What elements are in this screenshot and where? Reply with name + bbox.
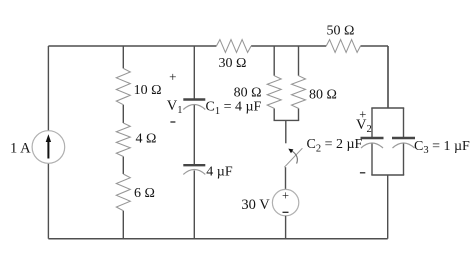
current source I = 1 A [32,131,65,164]
wire right rail (top corner down to cap box) [387,46,389,108]
svg-text:C1 = 4 µF: C1 = 4 µF [206,100,262,117]
resistor 10 Ohm [116,68,130,104]
svg-text:1 A: 1 A [10,141,31,157]
wire middle branch above switch [285,120,287,143]
wire capacitor box top/bottom bars [371,46,404,239]
capacitor C2 = 2 uF [361,138,384,148]
svg-text:30 Ω: 30 Ω [219,56,247,71]
svg-text:4 Ω: 4 Ω [136,131,157,146]
wire top rail [48,45,388,47]
svg-text:80 Ω: 80 Ω [234,85,262,100]
svg-text:4 µF: 4 µF [206,165,233,180]
svg-text:+: + [282,189,289,203]
wire 80-ohm pair branches [274,46,300,120]
resistor 50 Ohm [326,40,360,53]
capacitor C3 = 1 uF [392,138,415,148]
resistor 4 Ohm [116,123,130,157]
wire capacitor branch (x=194) [193,46,195,239]
wire left rail [47,46,49,239]
wire resistor branch (x=123) [122,46,124,239]
capacitor C1 = 4 uF [183,100,205,110]
svg-text:C3 = 1 µF: C3 = 1 µF [414,139,470,156]
resistor 80 Ohm right [292,76,306,109]
svg-text:6 Ω: 6 Ω [134,186,155,201]
svg-text:50 Ω: 50 Ω [326,23,354,38]
svg-text:80 Ω: 80 Ω [309,88,337,103]
svg-text:V2: V2 [356,117,372,135]
svg-text:30 V: 30 V [241,197,270,213]
switch [284,148,302,167]
wire bottom rail [48,238,387,240]
capacitor 4 uF [183,165,205,174]
wire below 30 V source [285,216,287,239]
label minus of V2 [360,172,365,174]
wire between switch and 30 V source [285,167,287,189]
label minus of V1 [170,121,175,123]
resistor 30 Ohm [216,40,251,53]
svg-text:V1: V1 [167,98,183,116]
svg-text:C2 = 2 µF: C2 = 2 µF [307,137,363,154]
svg-text:+: + [169,69,176,84]
resistor 80 Ohm left [267,76,281,109]
svg-text:10 Ω: 10 Ω [134,83,162,98]
resistor 6 Ohm [116,174,130,211]
voltage source 30 V [272,189,298,216]
